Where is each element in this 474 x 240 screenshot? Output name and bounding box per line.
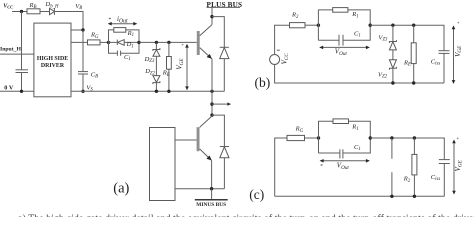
transistor Q1 IGBT high [197,31,200,55]
junction c open top [390,136,393,139]
wire 0V rail [0,90,34,92]
svg-text:C1: C1 [124,54,131,62]
capacitor Ciss c [439,159,450,161]
zener DZ3 [155,42,157,49]
wire low gate [175,139,197,141]
svg-text:VCC: VCC [3,4,13,10]
svg-text:+: + [181,43,184,49]
wire c network frame [319,121,371,153]
svg-text:+: + [457,21,460,27]
zener DZ2 [153,76,160,83]
svg-text:(c): (c) [249,187,264,202]
svg-text:R2: R2 [403,176,411,184]
op-amp U1 high side driver box [34,23,71,97]
junction VB node [81,28,84,31]
junction RE node [167,41,170,44]
capacitor C1c [339,149,341,158]
capacitor Ciss b [439,50,450,52]
wire b network frame [318,10,370,40]
resistor R1 [114,28,126,33]
svg-text:*: * [108,17,111,23]
svg-text:a) The high-side gate driver d: a) The high-side gate driver detail and … [18,214,474,218]
wire emitter vertical [211,59,213,92]
wire minus bus drop [211,189,213,199]
svg-text:VGE: VGE [454,45,463,57]
svg-text:Ciss: Ciss [431,174,441,182]
node MINUS BUS label [195,199,228,201]
junction c network right [369,136,372,139]
wire R2 to network [305,24,318,26]
annotation VOut arrow b [321,46,368,48]
annotation VOut arrow c [322,160,369,162]
wire cap branch upper [21,12,23,70]
resistor RG [88,40,101,45]
op-amp U2 low side driver box [150,128,176,201]
svg-text:(b): (b) [255,75,271,90]
svg-text:HIGH SIDE: HIGH SIDE [37,56,68,62]
capacitor C1 [116,51,118,56]
resistor RGc [287,135,305,140]
junction lower collector node [210,113,213,116]
junction c R2 bottom [413,195,416,198]
junction b zener top [391,24,394,27]
junction b RE bottom [412,81,415,84]
wire zener middle [155,56,157,75]
wire VB link [71,29,83,31]
junction b network right [369,24,372,27]
svg-text:VZ3: VZ3 [378,34,388,42]
junction network left [107,41,110,44]
junction low emitter node [210,187,213,190]
svg-text:(a): (a) [113,180,129,196]
svg-text:R1: R1 [351,124,358,132]
resistor RB [27,9,40,14]
svg-text:VGE: VGE [176,58,185,70]
wire phase stub [212,103,228,105]
junction VS rail RE [167,90,170,93]
svg-text:CB: CB [91,71,98,79]
resistor R2b [290,23,306,28]
wire cap branch lower [21,73,23,92]
wire low rail [175,188,224,190]
junction c open bottom [390,195,393,198]
svg-text:+: + [456,136,459,142]
zener VZ3 [392,25,394,41]
junction CB-VS node [81,90,84,93]
svg-text:C1: C1 [354,31,361,39]
wire source top [275,25,290,54]
diode DF1 freewheel top [212,17,224,48]
junction phase node [210,102,213,105]
wire RG to network c [305,137,319,139]
zener VZ2 [389,60,396,68]
wire b top rail [370,25,444,50]
svg-text:VOut: VOut [335,47,348,56]
wire Input_H [0,53,34,55]
svg-text:VZ2: VZ2 [378,71,388,79]
svg-text:VS: VS [86,84,93,92]
diode D1 [116,40,118,46]
junction b network left [317,24,320,27]
diode DF2 freewheel bottom [212,115,224,146]
wire c bottom rail [275,195,445,197]
diode Db_H [50,8,55,14]
wire VB vertical [82,30,84,72]
wire RB to diode [40,11,50,13]
junction 0V node [20,90,23,93]
svg-text:RB: RB [29,2,37,10]
junction c R2 top [413,136,416,139]
svg-text:RE: RE [403,59,411,67]
svg-text:RG: RG [295,126,304,134]
transistor Q2 IGBT low [200,116,212,127]
wire b zener middle [392,50,394,60]
junction c network left [317,136,320,139]
svg-text:Input_H: Input_H [0,47,21,53]
wire VS rail [71,90,224,92]
annotation VGE arrow b [453,27,455,82]
svg-text:*: * [320,163,323,169]
wire gate output [71,41,88,43]
wire diode to VB corner [54,12,83,31]
junction collector node [210,15,213,18]
resistor R2c [413,138,415,154]
source VCC [270,55,280,65]
wire CB lower [82,74,84,91]
wire gate to IGBT [139,41,197,43]
capacitor decoupling [16,69,29,71]
resistor R1c [333,119,349,124]
junction network right [137,41,140,44]
resistor REb [413,25,415,43]
wire RG to network [100,41,109,43]
svg-text:DZ2: DZ2 [144,68,155,76]
svg-text:0 V: 0 V [4,84,14,91]
junction b RE top [412,24,415,27]
svg-text:R1: R1 [351,11,358,19]
junction b zener bottom [391,81,394,84]
svg-text:R2: R2 [291,12,299,20]
svg-text:Ciss: Ciss [431,59,441,67]
junction VS rail emitter [210,90,213,93]
wire open branch [391,138,393,196]
resistor R1b [333,8,348,13]
svg-text:RG: RG [90,32,99,40]
wire plus bus drop [211,7,213,24]
svg-text:iOut: iOut [117,15,128,24]
junction Vcc node [20,10,23,13]
svg-text:MINUS BUS: MINUS BUS [196,202,226,208]
svg-text:Db_H: Db_H [45,1,60,9]
capacitor CB [78,71,88,73]
wire c top rail [370,138,444,159]
resistor RE [168,42,170,56]
svg-text:DRIVER: DRIVER [41,63,65,69]
svg-text:VOut: VOut [337,161,350,170]
wire network top loop [109,30,140,43]
junction VS rail zener [155,90,158,93]
svg-text:VB: VB [75,3,82,11]
capacitor C1b [338,35,340,46]
svg-text:VGE: VGE [454,159,463,171]
annotation VGE arrow c [453,141,455,192]
wire Vcc input [12,11,27,13]
annotation iOut arrow [110,23,136,25]
svg-text:VCC: VCC [281,53,290,65]
wire phase vertical [211,91,213,116]
wire network bottom loop [109,42,140,53]
svg-text:R1: R1 [127,30,134,38]
svg-text:DZ3: DZ3 [144,56,155,64]
junction zener node [155,41,158,44]
wire c left [275,138,287,196]
wire b bottom rail [275,65,444,84]
svg-text:C1: C1 [354,144,361,152]
